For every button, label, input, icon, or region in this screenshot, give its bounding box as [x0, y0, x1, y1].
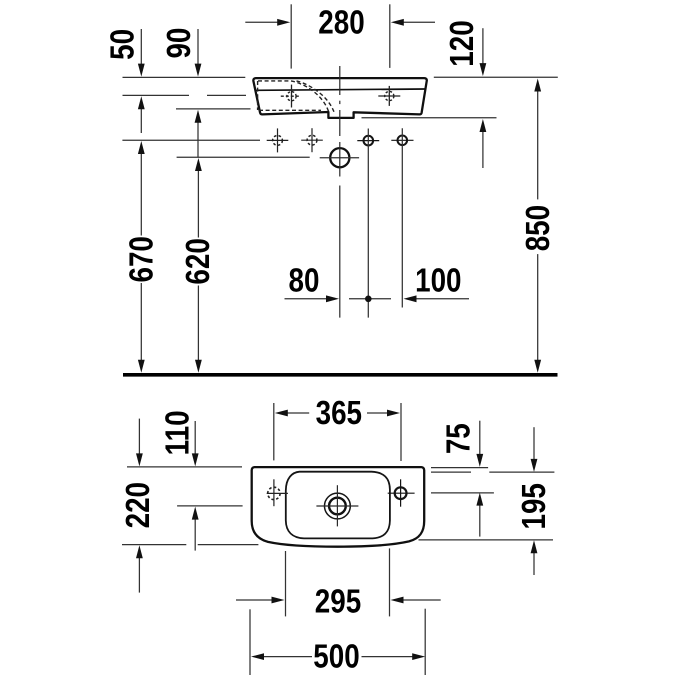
sink bottom edge extension left (gap for 110 line) — [122, 544, 186, 546]
svg-text:120: 120 — [444, 20, 481, 66]
ground line — [123, 373, 558, 377]
dim 365 — [274, 403, 401, 461]
drain circle (front) — [330, 148, 349, 167]
svg-text:670: 670 — [123, 236, 160, 282]
sink body outline (front elevation) — [253, 78, 426, 118]
dim 195 — [533, 427, 535, 575]
dim 120 — [482, 28, 484, 168]
dim 100 — [415, 298, 470, 300]
dim 670 — [140, 153, 142, 361]
right: sink top edge ext — [431, 467, 488, 469]
drain cross line — [320, 157, 359, 159]
extension verticals from solid fixing holes down to 80/100 dim — [367, 129, 369, 318]
dim 90 — [197, 29, 199, 157]
rim level extension line right — [434, 76, 558, 78]
svg-text:500: 500 — [313, 639, 359, 676]
dim 850 — [537, 90, 539, 361]
tap hole right — [378, 86, 400, 106]
bottom of basin extension line (120 dim) — [362, 117, 497, 119]
dim 50 — [140, 29, 142, 133]
tap hole right plan — [388, 479, 415, 506]
dim 280 — [245, 4, 435, 68]
dim 295 — [236, 548, 441, 616]
drain level line left — [177, 505, 243, 507]
svg-text:100: 100 — [415, 263, 461, 300]
right: sink bottom ext — [419, 539, 554, 541]
svg-text:90: 90 — [161, 28, 198, 59]
svg-text:850: 850 — [520, 205, 557, 251]
svg-text:50: 50 — [104, 29, 141, 60]
svg-text:80: 80 — [289, 262, 320, 299]
dim 80 — [285, 298, 329, 300]
50-below-rim line — [123, 94, 190, 96]
svg-text:220: 220 — [120, 482, 157, 528]
90-below-rim line — [176, 108, 251, 110]
dim 75 — [479, 421, 481, 537]
inner basin outline (plan) — [286, 472, 390, 539]
svg-text:365: 365 — [316, 395, 362, 432]
fixing holes level line — [122, 139, 260, 141]
svg-text:195: 195 — [516, 483, 553, 529]
right: tap hole level ext — [431, 492, 494, 494]
vertical center line (dash-dot) — [339, 66, 341, 318]
drain plan — [316, 485, 358, 526]
extension lines around plan view — [122, 467, 554, 545]
svg-text:620: 620 — [180, 238, 217, 284]
svg-text:75: 75 — [441, 423, 478, 454]
right: inner basin top ext (gap for 75 line) — [431, 471, 471, 473]
tap hole left plan (hidden) — [267, 479, 288, 506]
fixing holes solid pair — [357, 136, 413, 146]
svg-text:295: 295 — [315, 583, 361, 620]
svg-text:110: 110 — [159, 410, 196, 455]
drain level line — [177, 156, 310, 158]
hidden (dashed) inner bowl contour — [258, 81, 335, 113]
fixing holes hidden pair — [267, 128, 323, 152]
svg-text:280: 280 — [318, 4, 364, 41]
dim 620 — [197, 170, 199, 361]
dim 220 — [138, 419, 140, 593]
tap hole left (hidden) — [281, 85, 300, 108]
sink top edge extension left — [127, 466, 242, 468]
inner front rim edge — [257, 89, 426, 90]
dim 500 — [250, 609, 425, 675]
mid segment with junction dot — [349, 298, 391, 300]
sink outer outline (plan) — [252, 467, 425, 547]
rim level extension line left — [123, 76, 246, 78]
dim 110 — [194, 421, 196, 551]
